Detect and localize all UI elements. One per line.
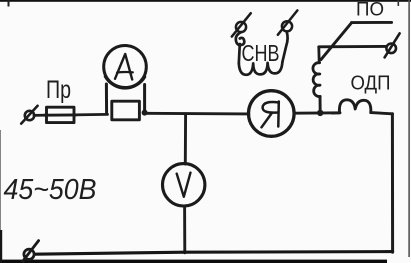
voltmeter V1 [163, 164, 205, 206]
wire ODP to right rail [371, 113, 393, 114]
wire fuse to shunt [74, 113, 108, 116]
wire terminal to fuse [34, 114, 47, 117]
svg-text:ПО: ПО [356, 0, 384, 21]
right scan border [408, 0, 410, 257]
fuse Pr [45, 107, 77, 122]
ammeter A1 [104, 46, 147, 115]
winding SNV (shunt field coil) [236, 32, 288, 75]
terminal X3 (switch output) [385, 33, 400, 57]
top scan border [0, 0, 411, 2]
terminal X4 (SNV left) [232, 13, 251, 36]
svg-text:Пр: Пр [46, 76, 71, 104]
junction (shunt right) [142, 110, 148, 116]
shunt R (ammeter shunt) [112, 101, 140, 120]
coil L1 (PO branch, vertical) [313, 63, 320, 97]
svg-text:45~50В: 45~50В [4, 174, 97, 206]
terminal X1 (left input, top) [21, 106, 37, 124]
left scan border [0, 130, 2, 230]
wire junction up to PO coil [319, 97, 322, 113]
terminal X2 (left input, bottom) [23, 241, 39, 262]
terminal X5 (SNV right) [278, 10, 298, 34]
wire right rail down [391, 114, 394, 252]
coil ODP (series winding, horizontal) [332, 100, 371, 113]
wire voltmeter to bottom rail [183, 206, 186, 253]
bottom scan border [0, 260, 387, 263]
wire coil to switch [317, 47, 320, 63]
switch PO (knife switch) [319, 22, 392, 59]
wire bottom rail [35, 252, 393, 255]
svg-text:ОДП: ОДП [351, 73, 391, 95]
armature Ya (motor) [248, 91, 294, 137]
junction (switch branch) [317, 110, 323, 116]
svg-text:СНВ: СНВ [242, 40, 280, 66]
wire shunt to armature [145, 112, 249, 115]
label Pr [46, 76, 71, 104]
wire voltmeter tap down [184, 114, 187, 164]
wire armature to ODP coil [294, 111, 340, 114]
